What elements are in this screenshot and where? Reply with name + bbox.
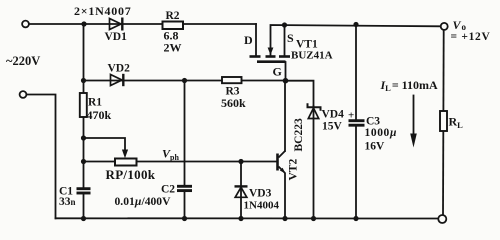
svg-text:0.01µ/400V: 0.01µ/400V: [115, 195, 172, 208]
svg-text:G: G: [273, 65, 282, 79]
svg-text:VD2: VD2: [108, 63, 131, 75]
svg-text:RP/100k: RP/100k: [106, 167, 156, 182]
wire C3 branch: [355, 24, 357, 119]
wire gate lead: [285, 62, 287, 81]
wire bottom rail: [56, 217, 439, 219]
diode VD3: [235, 186, 248, 197]
diode VD1: [110, 18, 123, 31]
svg-text:2×1N4007: 2×1N4007: [74, 4, 132, 18]
capacitor C3: [349, 121, 365, 126]
output terminal Vo: [441, 23, 448, 30]
transistor VT2 base bar: [276, 154, 279, 171]
MOSFET VT1 gate electrode: [257, 60, 286, 63]
wire left column: [83, 24, 85, 188]
svg-text:VD4: VD4: [322, 108, 345, 120]
input terminal 2: [20, 91, 27, 98]
svg-text:BC223: BC223: [293, 118, 305, 151]
junction dot VD2 row left: [81, 78, 86, 83]
transistor VT2 collector lead: [279, 151, 286, 158]
resistor RL: [440, 111, 447, 131]
wire VT2 emitter stem: [284, 174, 286, 219]
svg-text:D: D: [244, 33, 253, 47]
junction dot C3 / top rail: [353, 22, 358, 27]
MOSFET VT1 source contact bar: [279, 55, 290, 58]
wire left column below C1: [83, 194, 85, 219]
MOSFET VT1 body contact bar: [266, 55, 276, 58]
svg-text:C3: C3: [366, 116, 380, 128]
diode VD2: [111, 74, 124, 86]
svg-text:33n: 33n: [59, 196, 76, 208]
wire drain stub: [255, 24, 257, 55]
junction dot C2 / gate row: [182, 78, 187, 83]
svg-text:15V: 15V: [322, 121, 343, 133]
wire C3 branch lower: [355, 127, 357, 219]
svg-text:VD3: VD3: [249, 188, 272, 200]
wire gate row (VD2/R3 row): [84, 80, 286, 82]
svg-text:1000µ: 1000µ: [365, 127, 398, 139]
junction dot gate node: [283, 78, 289, 84]
svg-text:BUZ41A: BUZ41A: [291, 50, 333, 62]
wire Vph row: [84, 161, 278, 163]
junction dot C3 / bottom rail: [353, 216, 358, 221]
svg-text:ph: ph: [170, 153, 179, 162]
svg-text:= +12V: = +12V: [451, 31, 491, 43]
svg-text:560k: 560k: [221, 96, 246, 110]
svg-text:R2: R2: [166, 10, 180, 22]
junction dot top rail left: [81, 21, 86, 26]
junction dot C2 / bottom rail: [182, 216, 187, 221]
wire source stub: [284, 25, 286, 55]
potentiometer RP: [115, 159, 137, 166]
svg-text:2W: 2W: [164, 41, 182, 55]
junction dot VD3 / Vph row: [238, 159, 243, 164]
junction dot C1 / bottom rail: [81, 216, 86, 221]
wire VD3 branch: [240, 162, 242, 219]
input terminal 1: [22, 21, 29, 28]
svg-text:VT2: VT2: [288, 159, 300, 181]
svg-text:R1: R1: [88, 97, 102, 109]
capacitor C2: [177, 186, 192, 190]
wire C2 branch: [184, 81, 186, 185]
svg-text:16V: 16V: [365, 141, 386, 153]
svg-text:470k: 470k: [87, 108, 112, 122]
resistor R1: [80, 93, 87, 117]
wire IL arrow stem: [413, 96, 415, 138]
junction dot VT2 emitter / bottom rail: [282, 216, 287, 221]
wire top rail right segment (body stub to output terminal): [271, 25, 441, 55]
svg-text:1N4004: 1N4004: [244, 200, 280, 212]
svg-text:VD1: VD1: [105, 31, 128, 43]
wire RP wiper branch: [84, 138, 126, 150]
wire top rail (terminal 1 to drain corner): [29, 23, 256, 25]
svg-text:~220V: ~220V: [6, 54, 40, 68]
wire VT2 collector stem: [284, 81, 286, 151]
wire gate node to VD4 branch: [286, 81, 314, 106]
transistor VT2 emitter arrow: [280, 168, 286, 174]
MOSFET VT1 drain contact bar: [250, 55, 261, 58]
IL arrow head: [410, 134, 417, 148]
transistor VT2 emitter lead: [279, 167, 286, 174]
resistor R2: [163, 22, 184, 30]
wire C2 branch lower: [184, 192, 186, 219]
capacitor C1: [77, 189, 91, 193]
svg-text:S: S: [287, 31, 294, 45]
junction dot source / top rail: [282, 22, 287, 27]
wire input terminal 2 lead: [27, 95, 56, 219]
MOSFET VT1 body arrow: [268, 48, 274, 56]
resistor R3: [222, 77, 242, 83]
zener diode VD4: [308, 103, 321, 118]
svg-text:C2: C2: [161, 184, 175, 196]
junction dot VD4 / bottom rail: [311, 216, 316, 221]
potentiometer RP wiper arrow head: [122, 150, 128, 159]
wire right column: [442, 30, 445, 215]
junction dot Vph left: [81, 159, 86, 164]
wire VD4 branch lower: [313, 106, 315, 219]
junction dot R1 bottom: [81, 135, 86, 140]
output terminal bottom: [438, 215, 446, 223]
junction dot VD3 / bottom rail: [238, 216, 243, 221]
